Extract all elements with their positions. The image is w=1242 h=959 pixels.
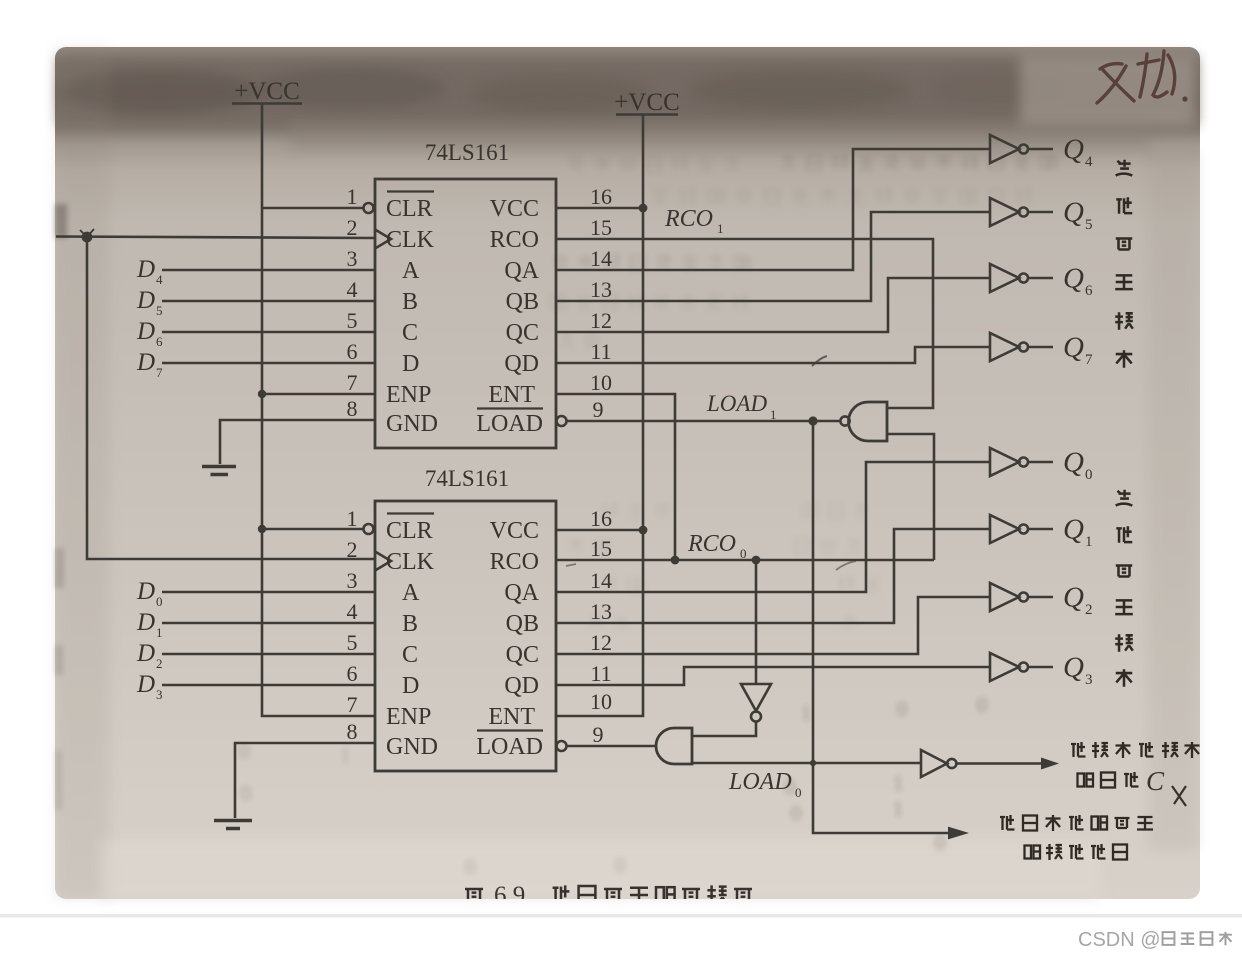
svg-text:+VCC: +VCC: [614, 89, 680, 116]
wire G3 output to U2 pin9 LOAD: [567, 745, 657, 748]
svg-text:5: 5: [347, 308, 358, 333]
wire U1 pin7 ENP tie-high: [262, 393, 375, 396]
svg-text:ENT: ENT: [488, 382, 535, 408]
wire U1 pin16 VCC: [556, 207, 643, 210]
svg-text:4: 4: [156, 272, 163, 287]
svg-text:QD: QD: [504, 351, 539, 377]
wire D4 to U1 pin3: [162, 269, 375, 272]
svg-text:11: 11: [590, 339, 611, 364]
bubble U1 pin9 LOAD: [557, 416, 567, 426]
svg-text:6.9: 6.9: [494, 882, 525, 909]
svg-text:ENP: ENP: [386, 704, 431, 730]
junction LOAD0/CP line: [810, 760, 816, 766]
svg-text:6: 6: [1085, 283, 1093, 299]
bubble inverter G4: [947, 759, 956, 768]
svg-text:0: 0: [795, 785, 802, 800]
svg-text:Q: Q: [1063, 332, 1084, 364]
svg-text:QB: QB: [506, 611, 539, 637]
svg-text:7: 7: [347, 370, 358, 395]
arrowhead latch signal: [948, 827, 969, 840]
svg-text:4: 4: [347, 277, 358, 302]
label column 送往显示模块 (lower): [1115, 490, 1133, 687]
svg-text:3: 3: [347, 246, 358, 271]
svg-text:3: 3: [1085, 672, 1093, 688]
wire U1 pin13 QB to inverter Q5: [556, 212, 990, 301]
svg-text:15: 15: [590, 215, 612, 240]
svg-text:QB: QB: [506, 289, 539, 315]
svg-text:D: D: [136, 578, 155, 605]
svg-text:QA: QA: [504, 258, 539, 284]
svg-text:1: 1: [893, 771, 904, 795]
IC U2 74LS161 body: [375, 501, 556, 771]
svg-text:3: 3: [156, 687, 163, 702]
svg-text:1: 1: [347, 506, 358, 531]
svg-text:14: 14: [590, 568, 612, 593]
ground symbol U1: [202, 467, 236, 475]
svg-text:0: 0: [977, 693, 988, 717]
svg-text:5: 5: [156, 303, 163, 318]
dark smudge marks on left edge: [55, 204, 67, 238]
wire U2 pin14 QA to inverter Q0: [556, 462, 990, 592]
svg-text:13: 13: [590, 599, 612, 624]
faint reversed table digits (bleed-through): [239, 693, 988, 879]
svg-text:C: C: [402, 642, 418, 668]
inverter Q2: [990, 583, 1053, 611]
svg-text:D: D: [136, 671, 155, 698]
svg-text:10: 10: [590, 689, 612, 714]
svg-text:8: 8: [347, 719, 358, 744]
power +VCC 1 underline: [232, 102, 302, 105]
junction LOAD1 node: [808, 416, 817, 425]
svg-text:2: 2: [347, 215, 358, 240]
tiny ink specks: [812, 356, 827, 366]
svg-text:C: C: [1146, 766, 1165, 796]
inverter Q5: [990, 198, 1053, 226]
wire LOAD1 down to latch-signal arrow: [813, 421, 950, 833]
svg-text:Q: Q: [1063, 197, 1084, 229]
U1 pin numbers left: [347, 184, 358, 421]
arrowhead state clock: [1041, 758, 1059, 770]
clock wedge U1 pin2: [375, 230, 391, 249]
wire G2 output to AND G3 upper input: [692, 722, 756, 737]
bubble U2 pin1 CLR: [364, 524, 374, 534]
svg-text:2: 2: [156, 656, 163, 671]
wire D7 to U1 pin6: [162, 362, 375, 365]
svg-text:Q: Q: [1063, 582, 1084, 614]
overline CLR U1: [387, 190, 434, 192]
AND G3 body: [656, 728, 692, 764]
label 的锁存信号: [1025, 844, 1128, 860]
caption 图6.9 计时单元的电路图 (clipped by photo edge): [465, 882, 752, 909]
svg-text:12: 12: [590, 630, 612, 655]
svg-text:GND: GND: [386, 411, 438, 437]
svg-text:RCO: RCO: [490, 549, 539, 575]
inverter G4 triangle: [921, 750, 947, 777]
svg-text:6: 6: [347, 661, 358, 686]
wire U2 pin12 QC to inverter Q2: [556, 597, 990, 654]
svg-text:0: 0: [615, 853, 626, 877]
svg-text:QC: QC: [506, 320, 539, 346]
svg-text:0: 0: [465, 855, 476, 879]
svg-text:74LS161: 74LS161: [425, 466, 509, 491]
svg-text:9: 9: [593, 722, 604, 747]
svg-text:12: 12: [590, 308, 612, 333]
svg-text:Q: Q: [1063, 652, 1084, 684]
svg-text:0: 0: [1085, 467, 1093, 483]
svg-text:2: 2: [347, 537, 358, 562]
wire U1 pin10 ENT down to RCO0 node: [556, 394, 675, 560]
svg-text:1: 1: [770, 407, 777, 422]
U2 pin names left: [386, 518, 438, 760]
bottom page separator line: [0, 914, 1242, 918]
wire U2 pin8 GND: [235, 743, 375, 818]
inverter Q4: [990, 135, 1053, 163]
inverter G2 triangle (pointing down): [741, 684, 771, 711]
junction clock node with ticks: [82, 232, 93, 243]
svg-text:1: 1: [156, 625, 163, 640]
svg-text:4: 4: [347, 599, 358, 624]
wire U1 pin1 CLR tie-high: [262, 207, 363, 210]
svg-text:1: 1: [347, 184, 358, 209]
wire D0 to U2 pin3: [162, 591, 375, 594]
svg-text:16: 16: [590, 184, 612, 209]
wire D1 to U2 pin4: [162, 622, 375, 625]
svg-text:1: 1: [1085, 534, 1093, 550]
svg-text:LOAD: LOAD: [476, 734, 543, 760]
svg-text:CLK: CLK: [386, 227, 435, 253]
svg-text:6: 6: [347, 339, 358, 364]
svg-text:D: D: [136, 609, 155, 636]
svg-text:7: 7: [1085, 352, 1093, 368]
svg-text:5: 5: [1085, 217, 1093, 233]
wire G3 lower input / LOAD0 net to inverter G4: [692, 762, 921, 765]
power +VCC 2 underline: [616, 113, 678, 116]
svg-text:3: 3: [347, 568, 358, 593]
wire U1 pin15 RCO1 to NAND G1 upper input: [556, 239, 933, 408]
svg-text:D: D: [136, 287, 155, 314]
wire RCO0 tap down to inverter G2: [755, 560, 758, 684]
svg-text:B: B: [402, 289, 418, 315]
svg-text:RCO: RCO: [490, 227, 539, 253]
svg-text:8: 8: [347, 396, 358, 421]
wire U1 pin12 QC to inverter Q6: [556, 278, 990, 332]
label column 送往显示模块 (upper): [1115, 160, 1133, 368]
label 状态转换模块的时钟CP (clipped at page edge): [1071, 742, 1200, 806]
svg-text:0: 0: [897, 697, 908, 721]
svg-text:LOAD: LOAD: [728, 769, 792, 795]
svg-text:14: 14: [590, 246, 612, 271]
svg-text:D: D: [402, 673, 419, 699]
svg-text:4: 4: [1085, 154, 1093, 170]
svg-text:11: 11: [590, 661, 611, 686]
svg-text:LOAD: LOAD: [706, 391, 767, 416]
U1 pin names left: [386, 196, 438, 437]
svg-text:C: C: [402, 320, 418, 346]
bubble inverter G2: [751, 712, 761, 722]
wire D2 to U2 pin5: [162, 653, 375, 656]
wire G4 output to state-unit clock arrow: [956, 762, 1043, 765]
svg-text:A: A: [402, 258, 420, 284]
junction U2 CLR on +VCC rail: [258, 525, 266, 533]
wire U1 pin8 GND: [220, 420, 375, 464]
svg-text:1: 1: [717, 221, 724, 236]
svg-text:QC: QC: [506, 642, 539, 668]
svg-text:10: 10: [590, 370, 612, 395]
U1 pin numbers right: [590, 184, 612, 422]
svg-text:7: 7: [347, 692, 358, 717]
svg-text:9: 9: [593, 397, 604, 422]
svg-text:D: D: [136, 256, 155, 283]
wire U2 pin15 RCO0: [556, 559, 934, 562]
svg-text:7: 7: [156, 365, 163, 380]
svg-text:6: 6: [156, 334, 163, 349]
overline CLR U2: [387, 512, 434, 514]
overline LOAD U2: [477, 729, 543, 731]
inverter Q3: [990, 653, 1053, 681]
svg-text:B: B: [402, 611, 418, 637]
svg-text:74LS161: 74LS161: [425, 140, 509, 165]
subtle side shading: [55, 47, 110, 899]
svg-text:D: D: [136, 640, 155, 667]
junction RCO0/G2 tap: [752, 556, 761, 565]
bubble U2 pin9 LOAD: [557, 741, 567, 751]
faint bleed-through text rows: [781, 154, 1057, 171]
U2 pin numbers left: [347, 506, 358, 744]
wire U2 pin1 CLR tie-high: [262, 528, 363, 531]
svg-text:16: 16: [590, 506, 612, 531]
svg-text:D: D: [402, 351, 419, 377]
inverter Q6: [990, 264, 1053, 292]
svg-text:VCC: VCC: [490, 196, 539, 222]
svg-text:5: 5: [347, 630, 358, 655]
+VCC 1 rail wire (down to U2 ENP pin 7): [262, 104, 375, 716]
junction ENT1/RCO0: [671, 556, 680, 565]
bubble U1 pin1 CLR: [364, 203, 374, 213]
svg-text:Q: Q: [1063, 134, 1084, 166]
wire U1 pin14 QA to inverter Q4: [556, 149, 990, 270]
svg-text:A: A: [402, 580, 420, 606]
junction U1 VCC on +VCC2 rail: [639, 204, 648, 213]
svg-text:LOAD: LOAD: [476, 411, 543, 437]
svg-text:Q: Q: [1063, 514, 1084, 546]
svg-text:0: 0: [935, 831, 946, 855]
wire D5 to U1 pin4: [162, 300, 375, 303]
svg-text:CLR: CLR: [386, 518, 433, 544]
svg-text:15: 15: [590, 536, 612, 561]
svg-text:1: 1: [340, 743, 351, 767]
svg-text:CLR: CLR: [386, 196, 433, 222]
svg-text:1: 1: [893, 797, 904, 821]
svg-text:VCC: VCC: [490, 518, 539, 544]
wire U1 pin11 QD to inverter Q7: [556, 347, 990, 363]
U2 pin numbers right: [590, 506, 612, 747]
junction U1 ENP on +VCC rail: [258, 390, 266, 398]
svg-text:0: 0: [791, 801, 802, 825]
handwriting 双机. in dark red pen: [1097, 51, 1175, 103]
svg-text:+VCC: +VCC: [234, 78, 300, 105]
svg-text:Q: Q: [1063, 447, 1084, 479]
label 信号灯控制单元: [1000, 815, 1153, 831]
wire U2 pin13 QB to inverter Q1: [556, 529, 990, 623]
svg-text:RCO: RCO: [664, 206, 713, 232]
svg-text:CLK: CLK: [386, 549, 435, 575]
dark shadow band at top of photo (bleed-through of dark print): [58, 58, 1197, 124]
overline LOAD U1: [477, 407, 543, 409]
U2 pin names right: [476, 518, 543, 760]
svg-text:ENT: ENT: [488, 704, 535, 730]
wire U2 pin16 VCC: [556, 529, 643, 532]
junction U2 VCC on +VCC2 rail: [639, 526, 648, 535]
bubble NAND G1 output: [840, 416, 849, 425]
svg-text:CSDN @: CSDN @: [1078, 929, 1161, 951]
inverter Q7: [990, 333, 1053, 361]
svg-text:RCO: RCO: [687, 531, 736, 557]
U1 pin names right: [476, 196, 543, 437]
wire LOAD1 net: [567, 420, 841, 423]
wire U2 pin11 QD to inverter Q3 (with jog): [556, 667, 990, 685]
ground symbol U2: [214, 821, 252, 829]
svg-text:D: D: [136, 349, 155, 376]
wire clock input from page edge to U1 CLK: [56, 237, 375, 239]
svg-text:QA: QA: [504, 580, 539, 606]
svg-text:GND: GND: [386, 734, 438, 760]
svg-text:Q: Q: [1063, 263, 1084, 295]
IC U1 74LS161 body: [375, 179, 556, 448]
svg-text:13: 13: [590, 277, 612, 302]
NAND G1 body: [849, 402, 888, 441]
+VCC 2 rail wire (down to U2 ENT pin 10): [556, 115, 643, 716]
wire D3 to U2 pin6: [162, 684, 375, 687]
wire NAND G1 lower input from RCO0: [887, 434, 934, 560]
inverter Q1: [990, 515, 1053, 543]
svg-text:D: D: [136, 318, 155, 345]
inverter Q0: [990, 448, 1053, 476]
wire clock node down to U2 CLK: [87, 237, 375, 559]
svg-text:0: 0: [241, 781, 252, 805]
svg-text:QD: QD: [504, 673, 539, 699]
svg-text:ENP: ENP: [386, 382, 431, 408]
svg-text:2: 2: [1085, 602, 1093, 618]
svg-text:0: 0: [740, 546, 747, 561]
svg-text:1: 1: [801, 701, 812, 725]
clock wedge U2 pin2: [375, 552, 391, 571]
svg-text:0: 0: [156, 594, 163, 609]
wire D6 to U1 pin5: [162, 331, 375, 334]
